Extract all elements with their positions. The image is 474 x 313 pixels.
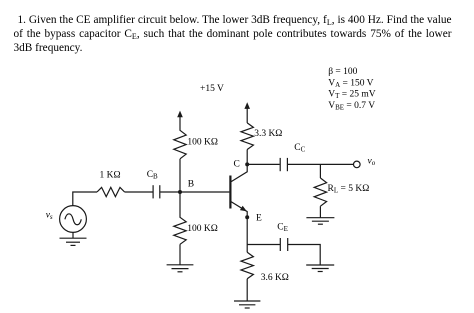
- svg-text:RL = 5 KΩ: RL = 5 KΩ: [328, 184, 370, 195]
- svg-text:3.6 KΩ: 3.6 KΩ: [261, 273, 289, 283]
- svg-text:C: C: [234, 159, 240, 169]
- svg-text:CB: CB: [147, 170, 158, 181]
- svg-text:+15 V: +15 V: [200, 84, 224, 94]
- svg-text:B: B: [188, 180, 194, 190]
- svg-text:VT = 25 mV: VT = 25 mV: [328, 90, 376, 101]
- svg-text:CC: CC: [294, 143, 305, 154]
- svg-text:β = 100: β = 100: [328, 67, 357, 77]
- svg-text:3.3 KΩ: 3.3 KΩ: [254, 129, 282, 139]
- svg-text:E: E: [256, 214, 262, 224]
- svg-text:vo: vo: [368, 156, 376, 167]
- svg-text:vs: vs: [46, 210, 53, 221]
- svg-text:CE: CE: [277, 223, 288, 234]
- svg-text:1 KΩ: 1 KΩ: [100, 171, 121, 181]
- svg-text:VA = 150 V: VA = 150 V: [328, 78, 373, 89]
- svg-text:100 KΩ: 100 KΩ: [187, 224, 218, 234]
- svg-text:100 KΩ: 100 KΩ: [187, 137, 218, 147]
- svg-text:VBE = 0.7 V: VBE = 0.7 V: [328, 101, 375, 112]
